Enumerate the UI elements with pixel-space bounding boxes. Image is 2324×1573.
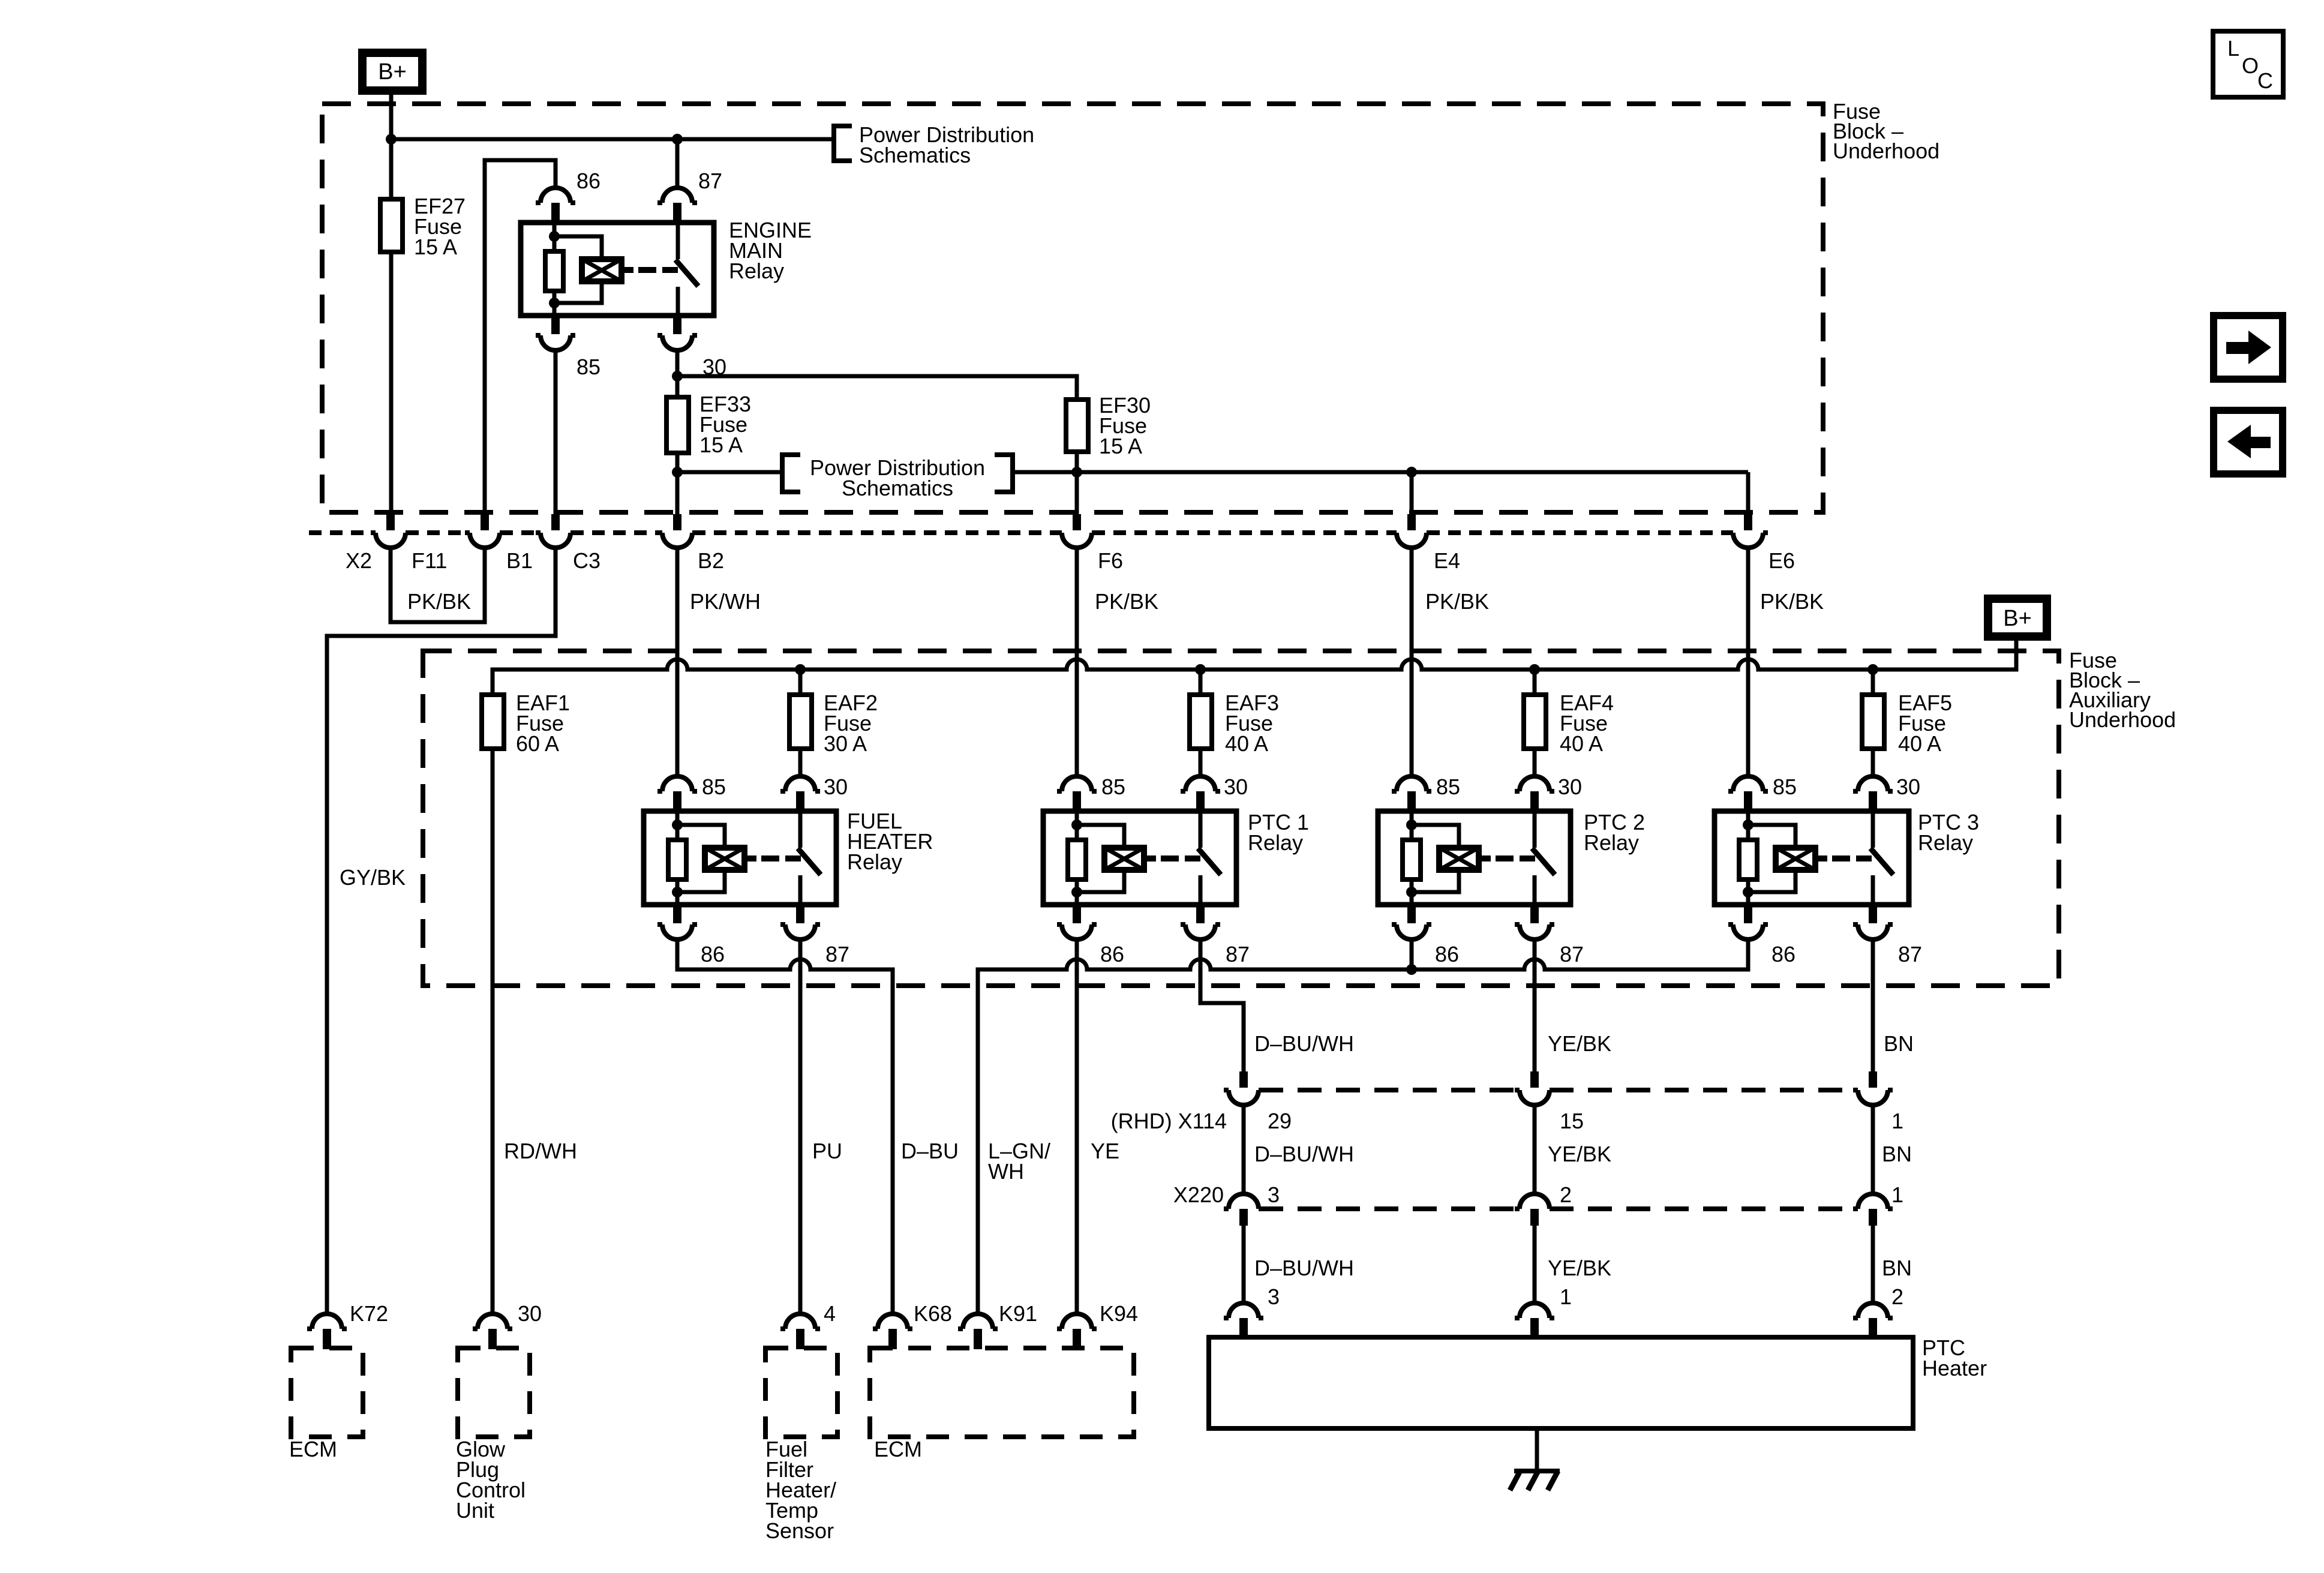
svg-text:86: 86: [1435, 942, 1459, 966]
svg-text:Schematics: Schematics: [859, 143, 971, 167]
pin 30 of PTC 1 Relay: [1181, 775, 1248, 812]
svg-text:K91: K91: [999, 1301, 1037, 1326]
pin 30 of PTC 3 Relay: [1853, 775, 1920, 812]
pin 87 of FUEL HEATER Relay: [780, 903, 849, 966]
svg-text:Sensor: Sensor: [765, 1518, 834, 1543]
svg-text:30 A: 30 A: [824, 731, 867, 756]
pin B2 of X2: [657, 514, 724, 573]
wire X114-15 to X220-2, YE/BK: [1535, 1105, 1611, 1194]
pin 85 of PTC 1 Relay: [1057, 775, 1125, 812]
svg-text:O: O: [2242, 53, 2259, 78]
svg-text:2: 2: [1891, 1284, 1903, 1309]
relay PTC 1 Relay: [1043, 810, 1309, 905]
svg-text:YE: YE: [1091, 1139, 1119, 1163]
node K72 (ECM input): [307, 1301, 388, 1349]
wire relay 85 down to C3: [554, 350, 558, 514]
fuse EAF3 40 A: [1190, 670, 1279, 756]
svg-text:L: L: [2227, 36, 2239, 61]
module Fuel Filter Heater/Temp Sensor: [765, 1348, 837, 1543]
svg-text:15 A: 15 A: [1099, 434, 1142, 458]
navigation arrow left: [2214, 410, 2283, 474]
wire F11-B1 loop, PK/BK: [391, 548, 485, 622]
pin 86 of PTC 2 Relay: [1392, 903, 1459, 966]
svg-text:YE/BK: YE/BK: [1548, 1031, 1611, 1056]
svg-text:40 A: 40 A: [1898, 731, 1941, 756]
wire PTC 1 relay 87 jog to X114 pin 29 (D-BU/WH): [1200, 939, 1244, 1071]
relay PTC 2 Relay: [1378, 810, 1645, 905]
pin 85 of ENGINE MAIN relay: [536, 314, 600, 379]
wire EF33 column down to distribution line and B2: [675, 376, 680, 514]
wire EAF4 to PTC 2 relay 30: [1533, 749, 1537, 777]
pin F6 of X2: [1057, 514, 1123, 573]
svg-text:85: 85: [1101, 775, 1125, 799]
wire color label L-GN/WH: [988, 1139, 1050, 1184]
svg-text:85: 85: [702, 775, 726, 799]
power symbol B+ (battery feed, auxiliary block): [1988, 599, 2047, 637]
svg-text:PK/BK: PK/BK: [1760, 589, 1824, 614]
svg-text:Heater: Heater: [1922, 1356, 1987, 1380]
junction at relay 87 branch: [672, 134, 683, 145]
svg-text:85: 85: [577, 355, 600, 379]
navigation arrow right: [2214, 316, 2283, 379]
svg-text:30: 30: [1558, 775, 1582, 799]
wire PTC 1 relay 86 down to K94 (YE): [1075, 939, 1079, 1314]
power symbol B+ (battery feed, top left): [362, 53, 422, 91]
pin E4 of X2: [1392, 514, 1460, 573]
svg-text:BN: BN: [1884, 1031, 1914, 1056]
wire B+ stem down through EF27 to F11: [389, 139, 394, 514]
wire PTC 2 relay 87 down to X114 pin 15 (YE/BK): [1533, 939, 1537, 1071]
pin C3 of X2: [536, 514, 600, 573]
pin 85 of PTC 2 Relay: [1392, 775, 1460, 812]
svg-text:87: 87: [1226, 942, 1250, 966]
svg-text:Relay: Relay: [847, 849, 902, 874]
wire color label RD/WH: [504, 1139, 577, 1163]
pin 4 of Fuel Filter Heater/Temp Sensor: [780, 1301, 836, 1349]
svg-text:F6: F6: [1098, 548, 1123, 573]
svg-text:87: 87: [1898, 942, 1922, 966]
svg-text:(RHD) X114: (RHD) X114: [1111, 1109, 1227, 1133]
svg-text:X2: X2: [346, 548, 372, 573]
svg-text:30: 30: [1224, 775, 1248, 799]
wire color label D-BU/WH (above X114): [1254, 1031, 1354, 1056]
fuse EAF5 40 A: [1862, 670, 1952, 756]
svg-text:ECM: ECM: [874, 1437, 922, 1461]
svg-text:BN: BN: [1882, 1256, 1912, 1280]
svg-text:PK/BK: PK/BK: [407, 589, 471, 614]
connector row X114 (RHD) dashed line: [1111, 1090, 1857, 1133]
svg-text:B+: B+: [378, 59, 407, 85]
svg-text:30: 30: [518, 1301, 542, 1326]
svg-text:2: 2: [1560, 1182, 1572, 1207]
wire E6 drop: [1746, 472, 1750, 514]
pin 86 of PTC 1 Relay: [1057, 903, 1124, 966]
svg-text:BN: BN: [1882, 1142, 1912, 1166]
fuse block underhood dashed border: [322, 99, 1939, 512]
svg-text:YE/BK: YE/BK: [1548, 1142, 1611, 1166]
wire relay 30 down to junction and across to EF30: [672, 350, 1077, 400]
wire X220-2 to PTC heater pin 1, YE/BK: [1535, 1226, 1611, 1304]
module ECM (right): [870, 1348, 1134, 1461]
pin 30 of Glow Plug Control Unit: [473, 1301, 542, 1349]
svg-text:RD/WH: RD/WH: [504, 1139, 577, 1163]
bracket: Power Distribution Schematics (top): [834, 122, 1034, 167]
wire distribution line right bracket to E6 corner: [1013, 467, 1748, 478]
svg-text:PK/BK: PK/BK: [1425, 589, 1489, 614]
svg-text:1: 1: [1891, 1182, 1903, 1207]
LOC reference box: [2213, 31, 2283, 97]
pin 29 of X114: [1224, 1071, 1292, 1133]
fuse EF33 15 A: [666, 392, 751, 457]
svg-text:86: 86: [701, 942, 725, 966]
svg-text:30: 30: [824, 775, 848, 799]
svg-text:K72: K72: [350, 1301, 388, 1326]
pin 86 of ENGINE MAIN relay: [536, 169, 600, 224]
PTC Heater box: [1209, 1335, 1987, 1428]
relay ENGINE MAIN (coil, resistor, switch): [521, 218, 812, 316]
fuse EAF2 30 A: [789, 670, 878, 756]
bracket pair: Power Distribution Schematics (middle): [782, 455, 1013, 500]
node K91 (ECM input): [958, 1301, 1037, 1349]
svg-text:87: 87: [1560, 942, 1584, 966]
svg-text:C3: C3: [573, 548, 600, 573]
pin 3 of PTC Heater: [1224, 1284, 1280, 1338]
pin 1 of X220: [1853, 1182, 1903, 1226]
svg-text:40 A: 40 A: [1560, 731, 1603, 756]
pin 86 of PTC 3 Relay: [1728, 903, 1795, 966]
wire B2 down to FUEL HEATER relay 85, PK/WH: [677, 548, 761, 777]
svg-text:29: 29: [1268, 1109, 1292, 1133]
node K68 (ECM input): [873, 1301, 952, 1349]
pin 87 of ENGINE MAIN relay: [657, 169, 722, 224]
wire color label YE/BK (above X114): [1548, 1031, 1611, 1056]
svg-text:1: 1: [1891, 1109, 1903, 1133]
svg-text:PK/BK: PK/BK: [1095, 589, 1158, 614]
wire X114-1 to X220-1, BN: [1873, 1105, 1912, 1194]
wire F6 down to PTC 1 relay 85, PK/BK: [1077, 548, 1158, 777]
pin 85 of PTC 3 Relay: [1728, 775, 1797, 812]
svg-text:86: 86: [1771, 942, 1795, 966]
pin 15 of X114: [1515, 1071, 1584, 1133]
wire PTC 2 relay 86 stub to bus: [1410, 939, 1414, 969]
svg-text:Underhood: Underhood: [1833, 139, 1939, 163]
svg-text:D–BU/WH: D–BU/WH: [1254, 1031, 1354, 1056]
wire B1 up-and-over to relay pin 86: [485, 160, 556, 514]
wire FUEL HEATER 86 to K68 drop (D-BU): [677, 939, 893, 1314]
wire EF30 bottom to distribution line: [1075, 452, 1079, 514]
svg-text:B+: B+: [2003, 606, 2032, 631]
pin 1 of X114: [1853, 1071, 1903, 1133]
module ECM (left): [289, 1348, 363, 1461]
wire C3 to GY/BK run: [327, 548, 556, 1314]
fuse EF30 15 A: [1066, 393, 1151, 458]
node K94 (ECM input): [1057, 1301, 1138, 1349]
svg-text:B2: B2: [698, 548, 724, 573]
pin 85 of FUEL HEATER Relay: [657, 775, 726, 812]
pin 87 of PTC 3 Relay: [1853, 903, 1922, 966]
svg-text:K68: K68: [914, 1301, 952, 1326]
wire EAF2 to FUEL HEATER relay 30: [798, 749, 803, 777]
pin 87 of PTC 1 Relay: [1181, 903, 1250, 966]
svg-text:87: 87: [698, 169, 722, 193]
svg-text:C: C: [2257, 68, 2273, 93]
svg-text:Relay: Relay: [729, 259, 784, 283]
svg-text:K94: K94: [1100, 1301, 1138, 1326]
svg-text:Relay: Relay: [1248, 830, 1303, 855]
wire PTC relays 86 bus to K91 drop (L-GN/WH): [978, 939, 1748, 1314]
svg-text:15: 15: [1560, 1109, 1584, 1133]
svg-text:Relay: Relay: [1918, 830, 1973, 855]
relay PTC 3 Relay: [1715, 810, 1979, 905]
svg-text:15 A: 15 A: [414, 235, 457, 259]
svg-text:PK/WH: PK/WH: [690, 589, 761, 614]
connector row X2 dotted line: [309, 533, 1733, 573]
svg-text:85: 85: [1436, 775, 1460, 799]
svg-text:85: 85: [1773, 775, 1797, 799]
svg-text:Schematics: Schematics: [842, 476, 953, 500]
svg-text:F11: F11: [412, 548, 447, 573]
pin 87 of PTC 2 Relay: [1515, 903, 1584, 966]
wire EAF5 to PTC 3 relay 30: [1871, 749, 1875, 777]
module Glow Plug Control Unit: [456, 1348, 530, 1523]
svg-text:X220: X220: [1173, 1182, 1224, 1207]
pin 30 of FUEL HEATER Relay: [780, 775, 848, 812]
svg-text:87: 87: [825, 942, 849, 966]
relay FUEL HEATER Relay: [644, 809, 933, 905]
wire X114-29 to X220-3, D-BU/WH: [1244, 1105, 1354, 1194]
fuse EAF1 60 A: [482, 691, 570, 756]
svg-text:B1: B1: [506, 548, 533, 573]
svg-text:Underhood: Underhood: [2069, 707, 2176, 732]
svg-text:4: 4: [824, 1301, 836, 1326]
svg-text:1: 1: [1560, 1284, 1572, 1309]
pin 1 of PTC Heater: [1515, 1284, 1572, 1338]
svg-text:D–BU/WH: D–BU/WH: [1254, 1142, 1354, 1166]
pin 2 of PTC Heater: [1853, 1284, 1903, 1338]
wire from B+ down to junction: [389, 95, 394, 139]
pin 86 of FUEL HEATER Relay: [657, 903, 725, 966]
wire color label YE: [1091, 1139, 1119, 1163]
svg-text:3: 3: [1268, 1182, 1280, 1207]
svg-text:WH: WH: [988, 1159, 1024, 1184]
wire E4 drop: [1410, 472, 1414, 514]
svg-text:86: 86: [577, 169, 600, 193]
pin 30 of ENGINE MAIN relay: [657, 314, 726, 379]
svg-text:E6: E6: [1768, 548, 1795, 573]
svg-text:40 A: 40 A: [1225, 731, 1268, 756]
wire X220-3 to PTC heater pin 3, D-BU/WH: [1244, 1226, 1354, 1304]
svg-text:Unit: Unit: [456, 1498, 494, 1523]
svg-text:15 A: 15 A: [699, 433, 743, 457]
svg-text:PU: PU: [812, 1139, 842, 1163]
wire relay pin 87 up to feed line: [675, 139, 680, 188]
wire color label BN (above X114): [1884, 1031, 1914, 1056]
wire color label D-BU: [901, 1139, 959, 1163]
svg-text:Relay: Relay: [1584, 830, 1639, 855]
wire EAF1 down to Glow Plug pin 30 (RD/WH): [491, 749, 495, 1314]
pin 3 of X220: [1224, 1182, 1280, 1226]
svg-text:YE/BK: YE/BK: [1548, 1256, 1611, 1280]
wire auxiliary B+ bus with crossover hops: [493, 641, 2016, 695]
wire PTC 3 relay 87 down to X114 pin 1 (BN): [1871, 939, 1875, 1071]
svg-text:30: 30: [1896, 775, 1920, 799]
svg-text:3: 3: [1268, 1284, 1280, 1309]
fuse EF27 15 A: [380, 194, 466, 259]
wire E6 down to PTC 3 relay 85, PK/BK: [1748, 548, 1824, 777]
pin 2 of X220: [1515, 1182, 1572, 1226]
pin F11 of X2: [371, 514, 447, 573]
pin 30 of PTC 2 Relay: [1515, 775, 1582, 812]
svg-text:ECM: ECM: [289, 1437, 337, 1461]
wire EAF3 to PTC 1 relay 30: [1199, 749, 1203, 777]
pin E6 of X2: [1728, 514, 1795, 573]
junction at B+ stem: [386, 134, 397, 145]
svg-text:GY/BK: GY/BK: [340, 865, 406, 890]
fuse block auxiliary underhood dashed border: [423, 648, 2176, 986]
svg-text:E4: E4: [1434, 548, 1460, 573]
svg-text:D–BU/WH: D–BU/WH: [1254, 1256, 1354, 1280]
svg-text:D–BU: D–BU: [901, 1139, 959, 1163]
wire E4 down to PTC 2 relay 85, PK/BK: [1412, 548, 1489, 777]
wire X220-1 to PTC heater pin 2, BN: [1873, 1226, 1912, 1304]
fuse EAF4 40 A: [1524, 670, 1614, 756]
connector row X220 dashed line: [1173, 1182, 1857, 1209]
wire horizontal feed to Power Distribution bracket: [391, 137, 834, 142]
wire distribution line EF33 to left bracket: [672, 467, 782, 478]
wire FUEL HEATER 87 down to pin 4 (PU): [798, 939, 803, 1314]
wire color label PU: [812, 1139, 842, 1163]
ground symbol below PTC Heater: [1510, 1428, 1560, 1490]
pin B1 of X2: [465, 514, 533, 573]
svg-text:86: 86: [1100, 942, 1124, 966]
svg-text:60 A: 60 A: [516, 731, 559, 756]
